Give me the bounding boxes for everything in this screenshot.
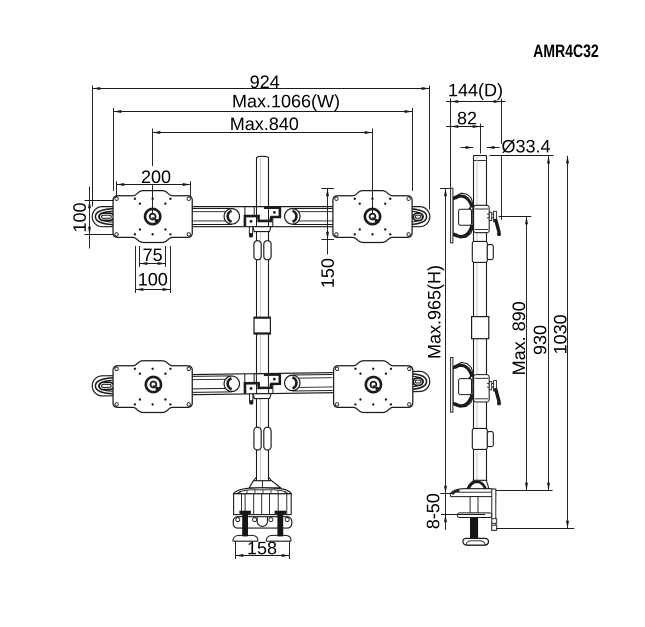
dimension 1030 [496, 156, 574, 529]
lower arm bar [92, 371, 430, 407]
title AMR4C32 [534, 44, 599, 57]
upper-left VESA plate [113, 191, 192, 243]
dimension 150 [321, 189, 334, 287]
side clamp back plate [492, 489, 497, 530]
base body [234, 494, 292, 515]
side clamp screw barrel [470, 497, 478, 513]
base rim [234, 488, 292, 494]
side pole [473, 156, 486, 481]
lower side collar [472, 428, 493, 449]
lower side mount [451, 358, 501, 413]
upper-right VESA plate [333, 191, 412, 243]
lower-right VESA plate [334, 361, 413, 413]
upper-right pivot ring [365, 209, 380, 224]
dimension 158 [236, 542, 290, 560]
middle side collar [472, 317, 489, 339]
lower-right pivot ring [366, 377, 381, 392]
side clamp lower jaw [457, 513, 492, 518]
clamp ring plate [233, 517, 292, 528]
lower knobs [254, 427, 271, 450]
lower-left VESA plate [113, 361, 192, 413]
lower-left pivot ring [146, 377, 161, 392]
side clamp foot [463, 538, 489, 545]
side bell foot [467, 480, 489, 490]
dimension 82 [446, 112, 484, 154]
dimension Max. 890 [499, 217, 532, 491]
pole collar [254, 317, 270, 334]
upper arm bar [92, 207, 430, 238]
upper side collar [472, 241, 493, 262]
dimension 75 [140, 246, 166, 267]
dimension 200 [117, 170, 191, 197]
side clamp screw [470, 518, 478, 539]
pole [257, 156, 269, 480]
clamp screws [239, 511, 286, 537]
dimension 100 bottom [136, 246, 171, 293]
dimension Max.840 [153, 117, 373, 214]
dimension Ø33.4 [461, 140, 554, 156]
side clamp top plate [450, 489, 495, 497]
base cone [249, 477, 280, 488]
base feet [233, 535, 291, 541]
dimension Max.1066(W) [114, 94, 413, 191]
dimension 100 vertical left [73, 187, 114, 249]
dimension 144(D) [446, 83, 506, 220]
dimension 930 [496, 156, 553, 491]
dimension 924 [93, 75, 430, 209]
upper knobs [254, 241, 271, 260]
upper side mount [451, 188, 501, 243]
upper-left pivot ring [145, 209, 160, 224]
dimension 8-50 [427, 494, 486, 531]
dimension Max.965(H) [427, 189, 451, 494]
